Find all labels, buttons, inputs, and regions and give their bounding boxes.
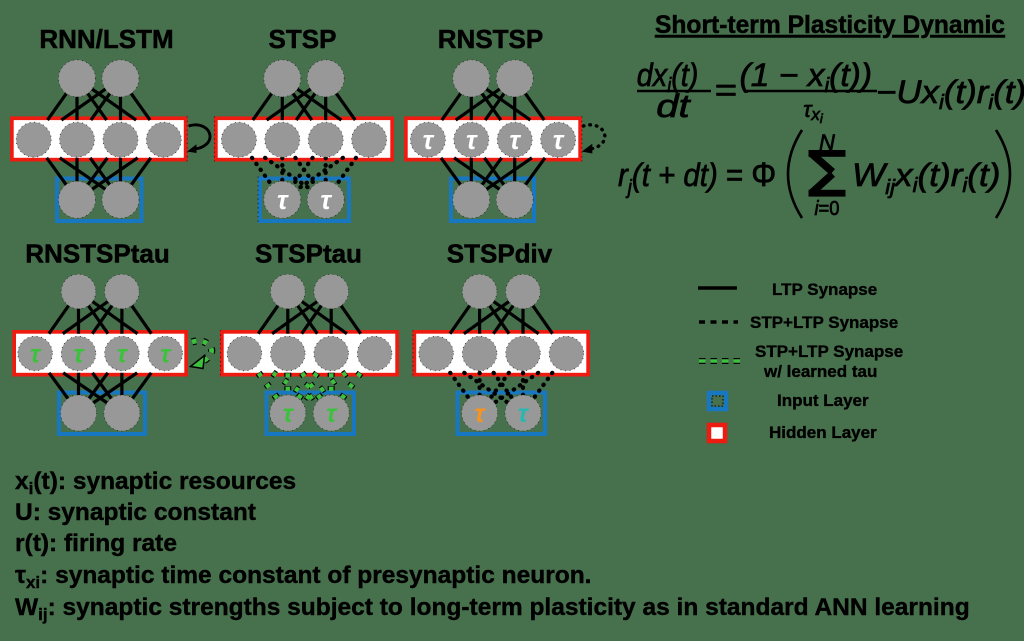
svg-text:RNSTSPtau: RNSTSPtau: [25, 239, 169, 269]
diagram STSPdiv: output-to-hidden wires (solid): [450, 292, 480, 334]
svg-text:τ: τ: [518, 400, 530, 428]
diagram STSP: output neurons: [264, 60, 301, 97]
svg-text:RNSTSP: RNSTSP: [438, 24, 543, 54]
svg-text:Wijxi(t)ri(t): Wijxi(t)ri(t): [852, 158, 1001, 198]
svg-text:N: N: [819, 130, 835, 155]
diagram RNSTSPtau: hidden layer box (red): [14, 332, 186, 375]
diagram STSP: hidden neurons: [221, 122, 256, 157]
diagram STSP: input layer box (blue): [260, 179, 349, 222]
svg-text:τ: τ: [277, 185, 289, 215]
diagram RNSTSP: input neurons: [453, 181, 490, 218]
legend: LTP synapse solid line: [698, 286, 737, 290]
svg-text:STSP: STSP: [269, 24, 337, 54]
sum sigma: [809, 150, 846, 197]
diagram RNN/LSTM: hidden neurons: [16, 122, 51, 157]
diagram RNSTSP: hidden layer box (red): [406, 118, 580, 159]
diagram RNSTSPtau: input layer box (blue): [59, 393, 145, 435]
diagram RNSTSP: output-to-hidden wires (solid): [442, 78, 472, 120]
diagram STSPdiv: hidden neurons: [419, 336, 454, 371]
dotted edge marks on boxes: [186, 116, 188, 161]
diagram RNSTSP: input layer box (blue): [451, 179, 534, 222]
diagram RNN/LSTM: input layer box (blue): [57, 179, 142, 222]
diagram RNN/LSTM: recurrent arrow (solid): [189, 125, 211, 149]
svg-text:dt: dt: [656, 88, 691, 124]
definitions text: [15, 468, 970, 624]
legend: hidden layer red square: [709, 425, 725, 441]
svg-text:r(t): firing rate: r(t): firing rate: [15, 530, 177, 557]
svg-text:LTP Synapse: LTP Synapse: [772, 280, 877, 299]
legend: STP+LTP synapse dashed line: [699, 320, 738, 324]
diagram STSPtau: hidden neurons: [227, 336, 262, 371]
legend: STP+LTP synapse w/ learned tau (green dashed line): [699, 358, 740, 364]
svg-text:U: synaptic constant: U: synaptic constant: [15, 499, 256, 526]
diagram RNSTSPtau: input neurons: [61, 395, 97, 431]
diagram RNSTSPtau: hidden-to-input wires: [49, 373, 78, 413]
big left paren: [788, 130, 802, 218]
svg-text:−Uxi(t)ri(t): −Uxi(t)ri(t): [876, 75, 1024, 114]
diagram STSP: hidden layer box (red): [216, 118, 392, 159]
diagram RNSTSPtau: output neurons: [61, 274, 96, 309]
diagram STSP: input neurons: [264, 181, 301, 218]
equation 2: r_j(t+dt) = Phi( sum_i=0^N W_ij x_i(t) r_i(t) ): [618, 130, 1010, 220]
svg-text:=: =: [715, 73, 737, 108]
diagram RNN/LSTM: output neurons: [59, 60, 96, 97]
svg-text:τ: τ: [326, 400, 338, 428]
svg-text:τ: τ: [30, 341, 42, 369]
diagram STSPtau: input neurons: [270, 395, 306, 431]
diagram RNN/LSTM: hidden-to-input wires: [47, 158, 77, 200]
equation 1: dx_i(t)/dt = (1 - x_i(t))/tau_xi - U x_i(t) r_i(t): [637, 57, 1024, 126]
diagram RNSTSP: hidden neurons: [410, 122, 445, 157]
diagram RNN/LSTM: output-to-hidden wires (solid): [48, 78, 78, 120]
svg-text:τ: τ: [320, 185, 332, 215]
diagram STSPdiv: hidden layer box (red): [414, 332, 588, 375]
svg-text:xi(t): synaptic resources: xi(t): synaptic resources: [15, 468, 296, 498]
svg-text:τ: τ: [283, 400, 295, 428]
diagram STSPtau: hidden-to-input wires: [259, 373, 288, 413]
diagram STSPdiv: input layer box (blue): [458, 393, 546, 435]
diagram STSPdiv: output neurons: [462, 274, 497, 309]
svg-text:Input Layer: Input Layer: [777, 391, 869, 410]
legend: input layer blue square: [709, 393, 726, 409]
svg-text:i=0: i=0: [814, 198, 839, 220]
diagram STSPtau: output-to-hidden wires (solid): [258, 292, 288, 334]
diagram RNSTSP: recurrent arrow (dashed): [583, 125, 605, 149]
svg-text:rj(t + dt) = Φ: rj(t + dt) = Φ: [618, 155, 776, 199]
big right paren: [996, 130, 1010, 218]
svg-text:Wij: synaptic strengths subjec: Wij: synaptic strengths subject to long-…: [15, 594, 970, 624]
svg-text:τ: τ: [423, 125, 435, 155]
svg-text:RNN/LSTM: RNN/LSTM: [39, 24, 173, 54]
diagram STSPtau: input layer box (blue): [267, 393, 355, 435]
diagram STSPdiv: input neurons: [462, 395, 498, 431]
svg-text:STSPdiv: STSPdiv: [447, 239, 553, 269]
diagram RNN/LSTM: hidden layer box (red): [12, 118, 186, 159]
diagram STSPtau: output neurons: [271, 274, 306, 309]
svg-text:τ: τ: [117, 341, 129, 369]
svg-text:τ: τ: [73, 341, 85, 369]
svg-text:τ: τ: [466, 125, 478, 155]
svg-text:τ: τ: [474, 400, 486, 428]
diagram RNN/LSTM: input neurons: [59, 181, 96, 218]
svg-text:τxi: synaptic time constant of: τxi: synaptic time constant of presynapt…: [15, 562, 591, 592]
diagram RNSTSP: hidden-to-input wires: [441, 158, 471, 200]
svg-text:τ: τ: [509, 125, 521, 155]
diagram RNSTSP: output neurons: [453, 60, 490, 97]
svg-text:τ: τ: [160, 341, 172, 369]
svg-text:Hidden Layer: Hidden Layer: [769, 423, 877, 442]
diagram RNSTSPtau: output-to-hidden wires (solid): [49, 292, 79, 334]
diagram STSPdiv: hidden-to-input wires: [450, 373, 479, 413]
svg-text:STP+LTP Synapse: STP+LTP Synapse: [755, 342, 903, 361]
svg-text:w/ learned tau: w/ learned tau: [763, 362, 877, 381]
diagram STSP: hidden-to-input wires: [252, 158, 282, 200]
svg-text:STP+LTP Synapse: STP+LTP Synapse: [750, 313, 898, 332]
svg-text:τ: τ: [553, 125, 565, 155]
diagram RNSTSPtau: hidden neurons: [18, 336, 53, 371]
diagram RNSTSPtau: recurrent arrow (green dashed): [192, 341, 212, 361]
svg-text:STSPtau: STSPtau: [255, 239, 362, 269]
svg-text:Short-term Plasticity Dynamic: Short-term Plasticity Dynamic: [655, 11, 1005, 39]
diagram STSP: output-to-hidden wires (solid): [253, 78, 282, 120]
diagram STSPtau: hidden layer box (red): [222, 332, 397, 375]
